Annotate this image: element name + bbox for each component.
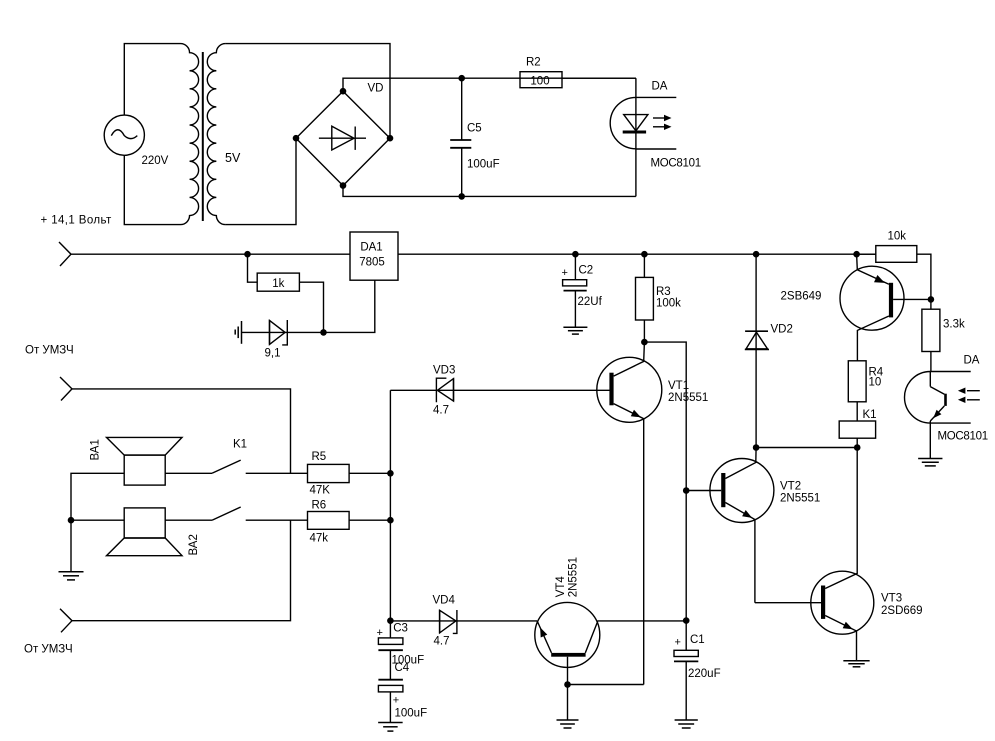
bridge rectifier internal diode xyxy=(319,126,366,150)
wire VT1 emitter to VT4 base row xyxy=(568,684,644,686)
svg-text:VT3: VT3 xyxy=(881,593,902,605)
svg-text:ВА1: ВА1 xyxy=(90,439,102,460)
node R3 tap xyxy=(641,251,648,258)
diode VD2 xyxy=(745,324,793,350)
transformer core xyxy=(202,52,204,221)
svg-text:VD4: VD4 xyxy=(433,595,456,607)
voltage regulator DA1 7805 xyxy=(350,232,398,280)
node bridge left vertex xyxy=(293,135,300,142)
svg-text:VT2: VT2 xyxy=(780,481,801,493)
svg-text:VT4: VT4 xyxy=(555,576,567,598)
svg-text:4.7: 4.7 xyxy=(434,636,450,648)
bridge rectifier VD diamond xyxy=(296,83,390,186)
svg-text:MOC8101: MOC8101 xyxy=(938,431,988,443)
svg-text:C5: C5 xyxy=(467,123,482,135)
svg-text:K1: K1 xyxy=(233,439,247,451)
svg-text:+: + xyxy=(377,627,383,639)
svg-text:VD2: VD2 xyxy=(771,324,793,336)
svg-text:100k: 100k xyxy=(656,298,681,310)
svg-text:22Uf: 22Uf xyxy=(578,296,603,308)
svg-text:R5: R5 xyxy=(312,451,327,463)
input arrow channel 1 xyxy=(60,377,72,401)
wire ground to zener xyxy=(242,331,324,333)
ground (C2) xyxy=(563,327,587,334)
svg-text:DA: DA xyxy=(652,81,668,93)
svg-text:+: + xyxy=(562,267,568,279)
svg-text:C1: C1 xyxy=(690,634,705,646)
svg-text:От УМЗЧ: От УМЗЧ xyxy=(24,644,73,656)
wire primary loop left/top/bottom xyxy=(124,44,180,225)
optocoupler DA MOC8101 phototransistor side xyxy=(905,355,988,459)
wire BA2 left xyxy=(71,519,124,521)
svg-text:+: + xyxy=(393,695,399,707)
svg-text:R2: R2 xyxy=(526,57,541,69)
svg-text:C3: C3 xyxy=(393,623,408,635)
wire R6 to sense node xyxy=(349,519,390,521)
node 2SB649 base junction xyxy=(928,296,935,303)
wire 5V rail from DA1 xyxy=(398,253,876,255)
node zener/1k/DA1-gnd xyxy=(320,329,327,336)
svg-text:DA1: DA1 xyxy=(360,242,382,254)
node VT4 base xyxy=(564,681,571,688)
transformer T1 secondary winding 5V xyxy=(207,44,241,225)
node bridge right vertex xyxy=(387,135,394,142)
svg-text:VD3: VD3 xyxy=(433,365,455,377)
wire VD2 vertical xyxy=(755,254,757,447)
svg-text:VD: VD xyxy=(368,83,384,95)
svg-text:10k: 10k xyxy=(888,231,907,243)
AC source 220V xyxy=(104,115,168,167)
node VT2 base xyxy=(683,487,690,494)
svg-text:MOC8101: MOC8101 xyxy=(651,158,701,170)
label K1 contacts xyxy=(233,439,247,451)
capacitor C2 22Uf xyxy=(562,254,603,327)
wire secondary top to bridge right vertex xyxy=(225,44,390,139)
svg-text:VT1: VT1 xyxy=(668,380,689,392)
wire BA1 left xyxy=(71,473,124,520)
resistor R6 47k xyxy=(308,500,350,545)
resistor R5 47K xyxy=(308,451,350,497)
svg-text:ВА2: ВА2 xyxy=(188,534,200,555)
wire R2 to optocoupler LED xyxy=(562,77,636,79)
node bridge bottom vertex xyxy=(340,182,347,189)
node C2 tap xyxy=(572,251,579,258)
svg-text:2N5551: 2N5551 xyxy=(568,557,580,597)
wire bridge plus rail xyxy=(343,78,636,91)
resistor 1k xyxy=(257,273,299,291)
svg-text:4.7: 4.7 xyxy=(433,405,449,417)
svg-text:100: 100 xyxy=(530,76,549,88)
svg-text:220uF: 220uF xyxy=(688,668,721,680)
node 1k tap xyxy=(244,251,251,258)
wire secondary bottom to bridge left vertex xyxy=(225,138,296,224)
node R3/VT1 collector xyxy=(641,339,648,346)
ground (optocoupler) xyxy=(918,459,942,466)
svg-text:47K: 47K xyxy=(310,485,331,497)
ground (C4) xyxy=(378,723,403,732)
wire 1k branch xyxy=(248,254,258,282)
zener diode VD4 4.7 xyxy=(390,595,537,648)
resistor R3 100k xyxy=(636,254,682,342)
svg-text:9,1: 9,1 xyxy=(265,348,281,360)
wire input ch1 xyxy=(72,389,291,473)
svg-text:220V: 220V xyxy=(142,155,169,167)
node C3 top xyxy=(387,617,394,624)
transistor VT1 2N5551 (NPN) xyxy=(597,342,708,684)
resistor R2 100 xyxy=(520,57,562,88)
wire VT2 emitter to VT3 base xyxy=(755,602,821,604)
svg-text:R3: R3 xyxy=(656,286,671,298)
label +14,1 Volt input xyxy=(41,215,113,227)
svg-text:47k: 47k xyxy=(310,533,329,545)
wire bridge minus rail xyxy=(343,186,636,197)
wire BA common to ground xyxy=(70,520,72,572)
label Ot UMZCh (input 3) xyxy=(24,644,73,656)
resistor 3.3k xyxy=(922,299,965,371)
node C5 bottom xyxy=(458,193,465,200)
wire R3 node to long vertical xyxy=(644,342,686,620)
svg-text:+ 14,1 Вольт: + 14,1 Вольт xyxy=(41,215,113,227)
input arrow channel 2 xyxy=(60,609,72,633)
wire input ch2 xyxy=(72,520,291,621)
node VD2/VT2 collector xyxy=(753,444,760,451)
resistor R4 10 xyxy=(848,361,884,421)
svg-text:10: 10 xyxy=(869,377,882,389)
wire +14.1V rail to DA1 xyxy=(71,253,350,255)
svg-text:2N5551: 2N5551 xyxy=(780,493,820,505)
ground (zener, sideways) xyxy=(235,321,241,344)
svg-text:7805: 7805 xyxy=(359,257,385,269)
ground (VT4) xyxy=(557,720,579,728)
wire VD2 node to K1 node xyxy=(756,447,857,449)
ground (C1) xyxy=(675,720,698,728)
wire 1k to zener node xyxy=(299,282,323,332)
transistor VT3 2SD669 (NPN) xyxy=(811,448,923,661)
svg-text:+: + xyxy=(675,637,681,649)
svg-text:3.3k: 3.3k xyxy=(943,319,965,331)
capacitor C4 100uF xyxy=(378,662,427,723)
node BA common xyxy=(68,517,75,524)
node C5 top xyxy=(458,75,465,82)
ground (speakers) xyxy=(59,572,84,580)
label Ot UMZCh (input 2) xyxy=(25,345,74,357)
transistor VT4 2N5551 (NPN, rotated) xyxy=(535,557,600,684)
svg-text:5V: 5V xyxy=(225,151,241,165)
node sense R5 xyxy=(387,470,394,477)
ground (VT3) xyxy=(843,661,869,667)
node K1/VT3 collector xyxy=(854,444,861,451)
svg-text:2SB649: 2SB649 xyxy=(781,291,822,303)
zener diode VD3 4.7 xyxy=(390,365,610,417)
svg-text:100uF: 100uF xyxy=(395,708,428,720)
switch K1 contact 2 xyxy=(165,507,307,520)
relay coil K1 xyxy=(839,409,876,448)
wire DA1 ground pin xyxy=(324,280,375,332)
input arrow +14.1V xyxy=(59,242,71,266)
speaker BA1 xyxy=(90,437,183,485)
svg-text:C4: C4 xyxy=(395,662,410,674)
wire VT4 collector to C1 node xyxy=(597,620,686,622)
capacitor C5 100uF xyxy=(450,78,499,196)
node sense R6 xyxy=(387,517,394,524)
capacitor C1 220uF xyxy=(674,621,721,720)
transistor VT2 2N5551 (NPN) xyxy=(710,448,820,603)
svg-text:C2: C2 xyxy=(579,265,594,277)
node bridge top vertex xyxy=(340,88,347,95)
wire VT2 base xyxy=(686,490,721,492)
svg-text:100uF: 100uF xyxy=(467,159,500,171)
svg-text:K1: K1 xyxy=(863,409,877,421)
transformer T1 primary winding xyxy=(181,44,199,225)
speaker BA2 xyxy=(107,508,201,556)
wire R5 to sense node xyxy=(349,472,390,474)
zener diode 9,1 xyxy=(265,320,288,360)
switch K1 contact 1 xyxy=(165,460,307,473)
capacitor C3 100uF xyxy=(377,621,425,680)
svg-text:DA: DA xyxy=(964,355,980,367)
wire VT4 base to ground xyxy=(567,685,569,721)
svg-text:От УМЗЧ: От УМЗЧ xyxy=(25,345,74,357)
svg-text:2N5551: 2N5551 xyxy=(668,392,708,404)
node C1 top xyxy=(683,617,690,624)
svg-text:R6: R6 xyxy=(312,500,327,512)
wire sense vertical xyxy=(389,390,391,620)
node 2SB649 emitter tap xyxy=(853,251,860,258)
resistor 10k xyxy=(857,231,931,300)
optocoupler DA MOC8101 LED side xyxy=(610,78,701,196)
svg-text:2SD669: 2SD669 xyxy=(881,605,923,617)
transistor 2SB649 (PNP) xyxy=(781,254,931,361)
svg-text:1k: 1k xyxy=(272,278,284,290)
node VD2 tap xyxy=(753,251,760,258)
